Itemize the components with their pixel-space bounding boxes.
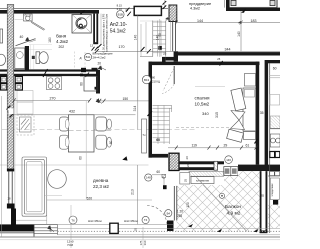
top-right small box right — [270, 0, 275, 5]
east wall column through balcony — [260, 171, 268, 233]
top-right room south wall — [226, 8, 280, 11]
partition face line — [170, 22, 172, 52]
svg-text:В1В: В1В — [118, 13, 123, 17]
svg-text:Б4: Б4 — [167, 211, 171, 215]
svg-text:4.3м2: 4.3м2 — [190, 7, 200, 11]
svg-text:60: 60 — [79, 156, 83, 160]
outer east wall — [265, 60, 269, 165]
svg-text:7СМ: 7СМ — [67, 243, 74, 247]
section line vertical x71 — [70, 205, 72, 248]
kitchen cabinet upper rect — [17, 91, 33, 103]
svg-text:20: 20 — [185, 156, 189, 160]
tag circle B4 — [165, 210, 172, 217]
dim 35 left mark — [48, 226, 55, 233]
dim line y147.8 bedroom — [168, 147, 256, 149]
chair NE — [96, 117, 107, 131]
svg-text:202: 202 — [59, 45, 65, 49]
neighbour stove — [270, 134, 280, 147]
top-right small box left — [231, 0, 236, 5]
svg-text:13: 13 — [90, 44, 94, 48]
svg-text:25: 25 — [134, 228, 138, 232]
south wall double lower — [179, 167, 214, 170]
svg-text:255: 255 — [177, 214, 183, 218]
svg-text:315: 315 — [215, 112, 219, 118]
joint block x174 — [174, 52, 178, 62]
svg-text:146: 146 — [226, 158, 231, 162]
band arrows — [188, 224, 193, 227]
stair wall corner horizontal — [149, 154, 169, 158]
svg-text:90: 90 — [158, 33, 162, 37]
dim line y51.4 — [96, 50, 280, 52]
bottom thin line — [0, 239, 280, 241]
svg-text:60: 60 — [157, 170, 161, 174]
window west double line — [8, 171, 10, 203]
kitchen wall lower line — [0, 74, 99, 76]
tag circle 146 — [225, 156, 233, 164]
top-right room inner lines — [230, 6, 277, 8]
dashed axis line y129 — [2, 129, 196, 131]
circled B1B — [117, 11, 125, 19]
SW wall grey edge — [0, 231, 34, 233]
step piece horizontal — [166, 57, 178, 61]
top thin wall face line — [0, 8, 168, 10]
svg-text:Балкон: Балкон — [225, 204, 241, 210]
sofa nested rects — [22, 157, 47, 216]
svg-text:150: 150 — [123, 97, 129, 101]
svg-text:119: 119 — [192, 144, 198, 148]
svg-text:54.1м2: 54.1м2 — [110, 29, 126, 35]
bedroom east wall — [256, 62, 260, 165]
balcony crosshatch right part — [238, 171, 260, 231]
terrace top wall right — [267, 60, 280, 63]
neighbour small rect left — [0, 29, 3, 43]
arrow near x99 y101 — [96, 99, 102, 104]
svg-text:35: 35 — [261, 194, 265, 198]
svg-text:183: 183 — [251, 19, 257, 23]
bed duvet tilted — [231, 88, 246, 111]
balcony niche box — [180, 173, 190, 185]
dim 213 rot — [137, 165, 139, 224]
svg-text:22,3 м2: 22,3 м2 — [93, 184, 109, 189]
svg-text:170: 170 — [119, 45, 125, 49]
bottom dotted band upper line — [58, 227, 281, 229]
pouf circle — [48, 170, 67, 189]
svg-text:баня: баня — [56, 34, 67, 39]
mattress pillow — [244, 90, 254, 98]
neighbour balcony crosshatch — [268, 205, 280, 229]
door leaf rect x141 — [142, 119, 147, 153]
svg-text:Ап2.10-: Ап2.10- — [110, 22, 128, 28]
bedroom shelf line — [195, 86, 225, 88]
neighbour upper box — [270, 95, 280, 106]
bedroom door swing dashes — [162, 68, 174, 94]
kitchen wall upper line — [0, 69, 99, 71]
tag circle T6 — [69, 216, 77, 224]
svg-text:432: 432 — [69, 109, 75, 113]
door gap ticks — [163, 1, 167, 9]
thin partition below x172-176 — [172, 21, 174, 52]
dashed line bedroom y127 — [176, 126, 231, 128]
svg-text:340: 340 — [202, 111, 209, 116]
dim 140 rot right — [240, 11, 242, 51]
bedroom south wall — [238, 165, 280, 172]
south wall double upper — [179, 161, 224, 164]
section line x86 — [85, 101, 87, 199]
svg-text:20: 20 — [186, 163, 190, 167]
neighbour black unit — [273, 200, 278, 205]
svg-text:0.30 дилатационна фуга с EPS: 0.30 дилатационна фуга с EPS — [101, 13, 105, 52]
svg-text:520: 520 — [87, 196, 93, 200]
tag circle T4 — [142, 216, 149, 223]
svg-text:80: 80 — [80, 82, 84, 86]
west wall inner face line — [14, 90, 16, 209]
hatched block top x168 — [169, 5, 177, 22]
svg-text:28: 28 — [6, 110, 10, 114]
tv dashed zone — [17, 115, 34, 135]
axis dash over table — [69, 130, 112, 132]
bed bowtie blanket — [231, 111, 246, 130]
svg-text:В13: В13 — [144, 78, 150, 82]
svg-text:25: 25 — [163, 52, 167, 56]
svg-text:120: 120 — [186, 202, 190, 208]
svg-text:4,9 м2: 4,9 м2 — [227, 211, 241, 217]
stair opening line b — [145, 22, 147, 51]
step piece vertical — [162, 57, 166, 65]
shower cabin — [72, 14, 91, 33]
stairs upper flight — [153, 21, 166, 57]
west wall black segment bottom — [7, 204, 15, 209]
south living hatched block — [169, 153, 179, 170]
svg-text:25: 25 — [217, 57, 220, 61]
tag circle 148 — [145, 174, 152, 181]
bottom band lower line — [58, 234, 281, 236]
svg-text:180: 180 — [48, 37, 52, 43]
svg-text:310: 310 — [143, 240, 147, 245]
svg-text:спалня: спалня — [195, 96, 211, 101]
west wall black cap — [7, 169, 14, 172]
svg-text:Т6: Т6 — [71, 218, 75, 222]
neighbour toilet left — [0, 54, 6, 65]
svg-text:140: 140 — [133, 35, 137, 41]
bottom terrace line — [16, 223, 173, 225]
corridor top wall outlined rect — [134, 6, 161, 15]
svg-text:29: 29 — [224, 144, 228, 148]
chair SE — [96, 135, 107, 149]
ac unit label box — [191, 177, 214, 184]
svg-text:20: 20 — [98, 62, 102, 66]
wall bathroom east vertical — [93, 14, 95, 43]
svg-text:210 Щ: 210 Щ — [152, 79, 160, 83]
svg-text:самонивелираща замазка 5см: самонивелираща замазка 5см — [105, 14, 109, 52]
bathroom floor grid — [29, 45, 52, 70]
wall tick kitchen — [43, 69, 89, 77]
dim 270 — [14, 99, 90, 101]
balcony door swing arc — [147, 206, 167, 226]
wall tick stair — [148, 111, 153, 116]
svg-text:60: 60 — [109, 141, 113, 145]
stove — [47, 76, 62, 89]
chair NW — [60, 117, 69, 131]
ticks on y51 dim — [95, 44, 151, 53]
svg-text:В11: В11 — [86, 55, 91, 59]
column dim ticks — [7, 106, 14, 118]
railing post white — [110, 223, 118, 233]
arrow at dim213 top — [122, 156, 127, 160]
balcony drain symbol — [219, 193, 224, 198]
chair SW — [60, 135, 69, 149]
wall notch — [92, 68, 98, 70]
washing machine — [15, 48, 25, 69]
bottom dotted row — [58, 230, 281, 232]
window sill band — [189, 171, 224, 176]
dim 520 line — [46, 188, 48, 224]
toilet button — [32, 56, 35, 59]
bathroom corner chamfer — [30, 21, 45, 31]
dim 28 window — [8, 108, 14, 114]
svg-text:25: 25 — [183, 179, 187, 183]
door tag B13 — [142, 75, 150, 83]
svg-text:Т4: Т4 — [144, 218, 148, 222]
neighbour east wall line — [269, 63, 271, 233]
wall tick bedroom top — [220, 61, 223, 66]
SW wall vertical — [11, 209, 16, 225]
svg-text:7x: 7x — [142, 133, 146, 137]
dim line x160 — [159, 19, 161, 57]
svg-text:144: 144 — [197, 19, 203, 23]
dim line y20.6 — [177, 22, 281, 24]
svg-text:4.2м2: 4.2м2 — [56, 39, 69, 44]
stair wall vertical x149 — [149, 62, 153, 158]
svg-text:Нпп=35см: Нпп=35см — [124, 219, 138, 223]
nightstand bottom — [244, 132, 256, 140]
stair dot — [158, 46, 161, 50]
svg-text:60: 60 — [273, 67, 277, 71]
south wall face line — [16, 219, 47, 221]
hatched jamb x214 — [214, 161, 218, 170]
svg-text:270: 270 — [50, 96, 56, 100]
bathroom axis dashed — [74, 52, 76, 70]
section line vertical x143 bottom — [142, 227, 144, 248]
svg-text:314: 314 — [133, 106, 137, 112]
svg-text:хладилник: хладилник — [271, 183, 274, 197]
neighbour window hatch — [270, 116, 280, 128]
door jamb blob bathroom door — [81, 68, 86, 72]
SW wall step — [33, 224, 35, 236]
bathroom partition wall — [25, 46, 29, 70]
nightstand top — [245, 74, 256, 87]
hatched west wall column — [7, 5, 13, 170]
dim 314 rot — [137, 101, 139, 130]
toilet — [36, 52, 48, 64]
wall end blob — [95, 87, 98, 90]
neighbour dark cabinets — [270, 152, 280, 158]
top wall band bathroom — [0, 10, 99, 14]
dim line y165 living — [0, 164, 149, 166]
bottom grey edge line — [0, 236, 280, 238]
bed foot blanket tilted — [227, 129, 244, 142]
corridor south wall band y52 — [176, 52, 280, 55]
bed mattress — [243, 88, 256, 131]
svg-text:140: 140 — [237, 31, 241, 37]
box symbol corner — [162, 174, 166, 177]
svg-text:2Н=4.2м2: 2Н=4.2м2 — [93, 56, 106, 60]
neighbour fridge box — [270, 178, 279, 200]
neighbour terrace railing lines — [270, 74, 280, 76]
corridor floor line — [140, 20, 161, 22]
door tag B11 — [84, 53, 91, 60]
SW wall horizontal — [0, 224, 34, 231]
top arrow x168 — [166, 17, 170, 21]
dim 150 — [97, 100, 149, 102]
balcony slope diagonal — [196, 177, 246, 231]
svg-text:10,5м2: 10,5м2 — [195, 102, 210, 107]
svg-text:дневна: дневна — [93, 178, 109, 183]
living NE wall vertical x96-100 — [96, 70, 100, 94]
svg-text:148: 148 — [146, 176, 151, 180]
svg-text:61: 61 — [246, 144, 250, 148]
tv unit — [20, 117, 32, 132]
svg-text:213: 213 — [131, 189, 135, 195]
dining table — [68, 115, 94, 152]
svg-text:35: 35 — [260, 111, 264, 115]
bedroom balcony window — [224, 167, 238, 176]
svg-text:40: 40 — [20, 35, 24, 39]
wall tick east — [255, 139, 258, 144]
svg-text:преддверие: преддверие — [189, 1, 212, 6]
svg-text:Д: Д — [80, 56, 82, 60]
svg-text:60: 60 — [156, 138, 160, 142]
corridor west face line — [100, 14, 102, 44]
bedroom door leaf — [173, 66, 175, 84]
neighbour counter — [268, 172, 280, 176]
corner dims 60 62 — [152, 174, 165, 176]
svg-text:344: 344 — [225, 47, 231, 51]
bathroom sink — [24, 14, 33, 21]
dim vertical x138 — [137, 15, 139, 101]
wardrobe hallway — [84, 76, 97, 91]
top-right room west wall — [226, 0, 230, 11]
wall tick above shower — [81, 11, 85, 15]
bedroom top wall — [149, 62, 260, 66]
balcony door hinge post — [167, 221, 174, 232]
stair opening edge — [140, 24, 142, 57]
neighbour cabinet squares — [1, 76, 7, 90]
stairs lower flight — [153, 105, 172, 144]
tick arrow below room — [241, 8, 246, 12]
kitchen cabinet outline low — [17, 102, 33, 114]
left neighbour edge line — [1, 96, 3, 237]
svg-text:Нпп=35см: Нпп=35см — [88, 219, 102, 223]
kitchen cabinet squares — [15, 76, 22, 90]
balcony crosshatch left part — [177, 185, 225, 232]
balcony door double line x174 — [173, 186, 175, 221]
dim 432 — [14, 114, 136, 116]
